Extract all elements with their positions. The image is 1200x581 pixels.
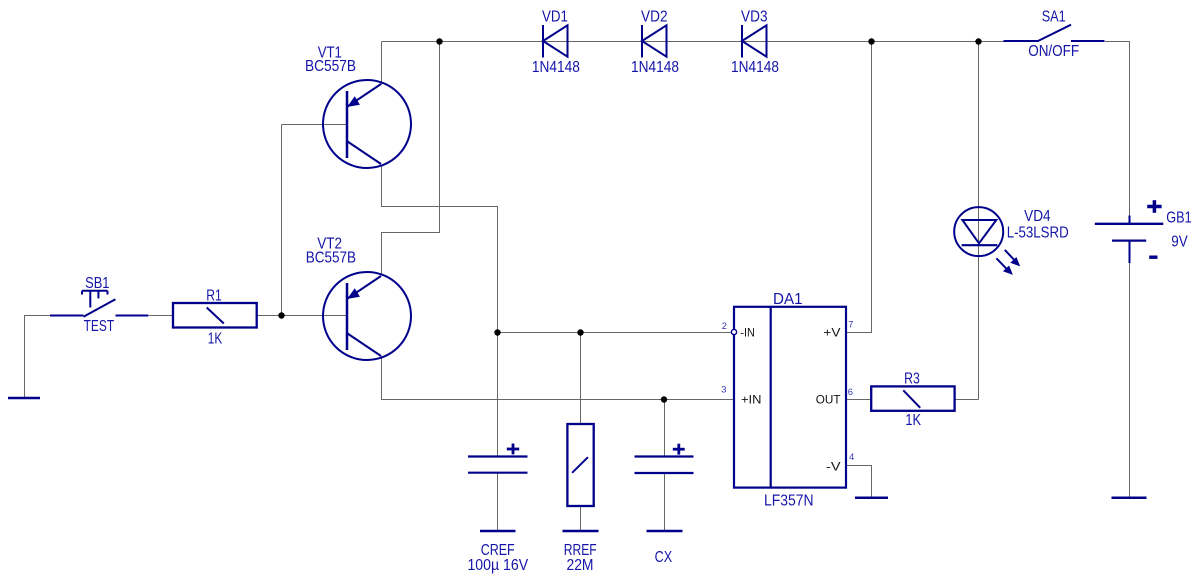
svg-text:GB1: GB1	[1166, 209, 1191, 226]
svg-text:OUT: OUT	[816, 392, 841, 406]
node +V junction dot	[868, 38, 874, 44]
svg-text:R1: R1	[206, 287, 222, 304]
wire pin6 to R3	[847, 399, 872, 401]
resistor R1	[173, 303, 257, 328]
svg-text:1N4148: 1N4148	[731, 59, 779, 76]
svg-text:3: 3	[721, 385, 726, 395]
wire VT2 base	[282, 315, 348, 317]
svg-text:1K: 1K	[905, 412, 921, 429]
svg-text:-IN: -IN	[740, 326, 755, 340]
switch SA1	[1004, 25, 1105, 41]
svg-text:1N4148: 1N4148	[532, 59, 580, 76]
svg-text:22M: 22M	[567, 557, 594, 574]
wire SB1 to R1	[149, 315, 174, 317]
capacitor CX	[635, 444, 694, 473]
wire VT1 emitter stub	[381, 42, 383, 85]
node base junction dot	[278, 312, 284, 318]
wire R3 to LED column	[956, 399, 979, 401]
ground CX	[647, 530, 683, 533]
svg-text:100µ 16V: 100µ 16V	[467, 557, 528, 574]
svg-text:R3: R3	[904, 370, 920, 387]
svg-text:SA1: SA1	[1042, 8, 1066, 25]
wire node A to VT2 emitter	[382, 42, 440, 276]
resistor R3	[871, 386, 954, 410]
wire battery minus to ground	[1129, 263, 1131, 498]
op-amp DA1	[731, 307, 846, 488]
svg-text:VD1: VD1	[542, 9, 568, 26]
diode VD3	[742, 25, 767, 58]
wire -IN net	[498, 332, 733, 334]
svg-text:SB1: SB1	[85, 275, 109, 292]
wire RREF drop	[580, 333, 582, 425]
ground left	[8, 397, 40, 400]
wire VT2 collector to +IN	[382, 356, 735, 400]
node LED junction dot	[975, 38, 981, 44]
wire LED column	[978, 42, 980, 400]
transistor VT2	[323, 272, 411, 360]
svg-text:+V: +V	[823, 326, 841, 340]
ground battery	[1112, 497, 1147, 500]
svg-text:ON/OFF: ON/OFF	[1028, 43, 1079, 60]
wire pin7 to top rail	[847, 42, 872, 333]
wire base bus vertical	[281, 125, 283, 316]
node CX junction dot	[661, 396, 667, 402]
node RREF junction dot	[577, 329, 583, 335]
wire CX drop	[664, 400, 666, 457]
wire VT1 collector to CREF	[382, 165, 498, 457]
wire SB1 left	[25, 316, 51, 399]
diode VD1	[543, 25, 568, 58]
pushbutton SB1	[50, 291, 149, 317]
LED VD4	[954, 207, 1019, 274]
svg-text:VD3: VD3	[741, 9, 768, 26]
svg-text:L-53LSRD: L-53LSRD	[1007, 225, 1069, 242]
ground CREF	[480, 530, 516, 533]
svg-text:TEST: TEST	[84, 318, 115, 335]
battery GB1	[1095, 200, 1164, 263]
svg-text:VD2: VD2	[641, 9, 668, 26]
diode VD2	[642, 25, 667, 58]
ground op-amp	[855, 497, 888, 500]
wire RREF to ground	[580, 507, 582, 532]
wire SA1 to battery top	[1105, 42, 1130, 217]
resistor RREF	[567, 424, 593, 506]
wire VT1 base	[282, 124, 348, 126]
svg-text:4: 4	[849, 452, 854, 462]
wire top rail	[382, 41, 1005, 43]
svg-text:+IN: +IN	[741, 393, 762, 407]
capacitor CREF	[468, 444, 528, 473]
svg-text:2: 2	[722, 321, 727, 331]
svg-text:1K: 1K	[208, 331, 223, 348]
svg-text:LF357N: LF357N	[764, 493, 814, 510]
wire pin4 to ground	[847, 466, 872, 498]
ground RREF	[563, 530, 599, 533]
svg-text:1N4148: 1N4148	[631, 59, 679, 76]
transistor VT1	[323, 80, 411, 168]
wire CREF to ground	[497, 474, 499, 532]
node -IN junction dot	[494, 329, 500, 335]
wire R1 to node B	[257, 315, 281, 317]
svg-text:VD4: VD4	[1024, 208, 1051, 225]
svg-text:6: 6	[848, 387, 853, 397]
svg-text:9V: 9V	[1171, 233, 1188, 250]
svg-text:BC557B: BC557B	[305, 58, 356, 75]
svg-text:-V: -V	[826, 459, 841, 473]
wire CX to ground	[664, 474, 666, 532]
svg-text:CX: CX	[655, 549, 673, 566]
svg-text:7: 7	[848, 320, 853, 330]
svg-text:DA1: DA1	[773, 291, 803, 308]
node A junction dot	[436, 38, 442, 44]
svg-text:BC557B: BC557B	[306, 249, 356, 266]
